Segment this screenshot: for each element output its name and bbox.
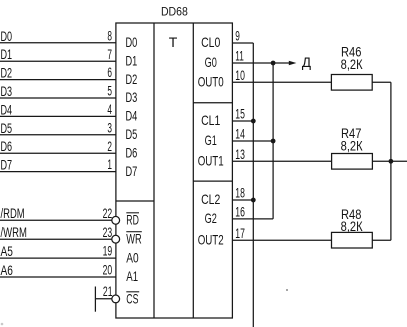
net label A5 bbox=[1, 243, 14, 259]
svg-text:D6: D6 bbox=[126, 144, 138, 160]
junction dot G0 node bbox=[271, 61, 276, 66]
svg-text:D2: D2 bbox=[126, 71, 138, 87]
value label R48 8,2K bbox=[341, 218, 364, 234]
pin label CL0 bbox=[201, 34, 220, 50]
svg-text:10: 10 bbox=[235, 67, 245, 83]
svg-text:13: 13 bbox=[235, 146, 245, 162]
svg-text:21: 21 bbox=[103, 283, 113, 299]
wire D3 pin 5 bbox=[0, 97, 116, 99]
svg-text:A5: A5 bbox=[1, 243, 14, 259]
svg-text:8,2К: 8,2К bbox=[341, 218, 364, 234]
svg-text:D6: D6 bbox=[1, 138, 13, 154]
svg-text:CL0: CL0 bbox=[201, 34, 220, 50]
arrowhead node D bbox=[289, 61, 297, 65]
wire CL2 pin 18 bbox=[232, 199, 253, 201]
pin label G0 bbox=[205, 54, 217, 70]
svg-text:/WRM: /WRM bbox=[1, 224, 27, 240]
svg-text:18: 18 bbox=[235, 185, 245, 201]
pin number 3 bbox=[107, 119, 112, 135]
pin label OUT0 bbox=[198, 74, 224, 90]
wire D7 pin 1 bbox=[0, 171, 116, 173]
inversion bubble pin 21 CS bbox=[112, 295, 120, 303]
resistor R46 body bbox=[331, 75, 372, 91]
svg-text:D1: D1 bbox=[126, 52, 138, 68]
pin number 17 bbox=[235, 225, 245, 241]
pin label A1 bbox=[126, 268, 138, 284]
svg-text:A1: A1 bbox=[126, 268, 138, 284]
svg-text:20: 20 bbox=[103, 262, 113, 278]
svg-text:OUT1: OUT1 bbox=[198, 153, 224, 169]
svg-text:16: 16 bbox=[235, 204, 245, 220]
wire G2 pin 16 bbox=[232, 218, 273, 220]
resistor R47 body bbox=[332, 154, 373, 170]
op IC DD68 outline bbox=[116, 23, 232, 318]
wire R47 right to edge bbox=[372, 160, 407, 162]
wire D5 pin 3 bbox=[0, 134, 116, 136]
wire G1 pin 14 bbox=[232, 140, 273, 142]
svg-text:8: 8 bbox=[107, 27, 112, 43]
junction dot CL1 node bbox=[251, 119, 256, 124]
net label A6 bbox=[1, 262, 14, 278]
svg-text:A0: A0 bbox=[126, 249, 139, 265]
svg-text:2: 2 bbox=[107, 138, 112, 154]
pin number 14 bbox=[235, 126, 245, 142]
wire CL1 pin 15 bbox=[232, 120, 253, 122]
svg-text:OUT0: OUT0 bbox=[198, 74, 224, 90]
pin number 2 bbox=[107, 138, 112, 154]
net label D0 bbox=[1, 28, 13, 44]
pin label D3 bbox=[126, 89, 138, 105]
label R47 bbox=[341, 125, 362, 141]
wire OUT2 pin 17 to R48 bbox=[232, 239, 331, 241]
bus right vertical bbox=[390, 82, 392, 240]
pin number 20 bbox=[103, 262, 113, 278]
net label D1 bbox=[1, 46, 13, 62]
wire /WRM pin 23 bbox=[0, 238, 112, 240]
label R46 bbox=[341, 43, 362, 59]
wire A6 pin 20 bbox=[0, 276, 116, 278]
svg-text:1: 1 bbox=[107, 156, 112, 172]
pin number 23 bbox=[103, 224, 113, 240]
node label D bbox=[302, 55, 311, 70]
wire D4 pin 4 bbox=[0, 115, 116, 117]
svg-text:17: 17 bbox=[235, 225, 245, 241]
pin number 21 bbox=[103, 283, 113, 299]
pin number 22 bbox=[103, 205, 113, 221]
pin number 10 bbox=[235, 67, 245, 83]
pin number 5 bbox=[107, 83, 112, 99]
pin label G2 bbox=[205, 210, 217, 226]
svg-text:Д: Д bbox=[302, 55, 311, 70]
svg-text:D4: D4 bbox=[126, 108, 138, 124]
net label D6 bbox=[1, 138, 13, 154]
svg-text:D0: D0 bbox=[126, 34, 138, 50]
pin label CL2 bbox=[201, 191, 220, 207]
svg-text:CL1: CL1 bbox=[201, 112, 220, 128]
wire A5 pin 19 bbox=[0, 257, 116, 259]
pin number 11 bbox=[235, 48, 244, 64]
svg-text:DD68: DD68 bbox=[161, 7, 188, 19]
wire /RDM pin 22 bbox=[0, 219, 112, 221]
svg-text:T: T bbox=[169, 34, 178, 50]
stray mark bbox=[1, 289, 288, 325]
pin number 8 bbox=[107, 27, 112, 43]
wire R48 right to bus bbox=[372, 239, 391, 241]
svg-text:D3: D3 bbox=[1, 83, 13, 99]
IC internal divider left bbox=[153, 23, 155, 318]
pin label D6 bbox=[126, 144, 138, 160]
IC left column separator below D7 bbox=[116, 200, 154, 202]
svg-text:D7: D7 bbox=[126, 163, 138, 179]
svg-text:15: 15 bbox=[235, 106, 245, 122]
bus G net vertical bbox=[272, 63, 274, 219]
svg-text:D3: D3 bbox=[126, 89, 138, 105]
svg-text:D1: D1 bbox=[1, 46, 13, 62]
svg-text:D7: D7 bbox=[1, 157, 13, 173]
svg-text:A6: A6 bbox=[1, 262, 14, 278]
svg-text:D2: D2 bbox=[1, 65, 13, 81]
svg-text:11: 11 bbox=[235, 48, 244, 64]
wire OUT1 pin 13 to R47 bbox=[232, 160, 331, 162]
inversion bubble pin 22 RD bbox=[112, 216, 120, 224]
net label D3 bbox=[1, 83, 13, 99]
pin number 1 bbox=[107, 156, 112, 172]
svg-text:D5: D5 bbox=[126, 126, 138, 142]
net label D7 bbox=[1, 157, 13, 173]
value label R46 8,2K bbox=[341, 56, 364, 72]
IC right column separator 2 bbox=[193, 180, 232, 182]
svg-text:5: 5 bbox=[107, 83, 112, 99]
net label /WRM bbox=[1, 224, 27, 240]
junction dot CL2 node bbox=[251, 198, 256, 203]
label R48 bbox=[341, 206, 362, 222]
wire D1 pin 7 bbox=[0, 60, 116, 62]
pin label D7 bbox=[126, 163, 138, 179]
svg-text:G1: G1 bbox=[205, 132, 217, 148]
pin label D1 bbox=[126, 52, 138, 68]
pin label WR with overbar bbox=[126, 230, 142, 246]
wire CS stub pin 21 bbox=[95, 298, 111, 300]
pin label D4 bbox=[126, 108, 138, 124]
junction dot R47 bus node bbox=[389, 159, 394, 164]
inversion bubble pin 23 WR bbox=[112, 235, 120, 243]
bus CL net vertical bbox=[252, 43, 254, 327]
svg-text:D0: D0 bbox=[1, 28, 13, 44]
svg-text:WR: WR bbox=[126, 230, 141, 246]
pin number 18 bbox=[235, 185, 245, 201]
pin number 16 bbox=[235, 204, 245, 220]
svg-text:23: 23 bbox=[103, 224, 113, 240]
pin label D0 bbox=[126, 34, 138, 50]
function label T bbox=[169, 34, 178, 50]
IC right column separator 1 bbox=[193, 102, 232, 104]
pin label OUT1 bbox=[198, 153, 224, 169]
svg-text:G2: G2 bbox=[205, 210, 217, 226]
svg-text:4: 4 bbox=[107, 101, 112, 117]
wire D6 pin 2 bbox=[0, 152, 116, 154]
svg-text:RD: RD bbox=[126, 212, 139, 228]
wire D0 pin 8 bbox=[0, 42, 116, 44]
svg-text:CL2: CL2 bbox=[201, 191, 220, 207]
pin number 13 bbox=[235, 146, 245, 162]
pin label G1 bbox=[205, 132, 217, 148]
pin label CL1 bbox=[201, 112, 220, 128]
svg-text:D5: D5 bbox=[1, 120, 13, 136]
label DD68 bbox=[161, 7, 188, 19]
net label /RDM bbox=[1, 205, 25, 221]
svg-text:22: 22 bbox=[103, 205, 113, 221]
pin number 4 bbox=[107, 101, 112, 117]
pin number 7 bbox=[107, 46, 112, 62]
wire R46 right to bus bbox=[372, 81, 391, 83]
pin label A0 bbox=[126, 249, 139, 265]
pin number 6 bbox=[107, 64, 112, 80]
pin number 9 bbox=[235, 28, 240, 44]
pin label CS with overbar bbox=[126, 290, 139, 306]
junction dot G1 node bbox=[271, 139, 276, 144]
svg-text:OUT2: OUT2 bbox=[198, 231, 224, 247]
net label D4 bbox=[1, 101, 13, 117]
resistor R48 body bbox=[332, 232, 373, 248]
pin label RD with overbar bbox=[126, 212, 139, 228]
svg-text:G0: G0 bbox=[205, 54, 217, 70]
value label R47 8,2K bbox=[341, 137, 364, 153]
svg-text:8,2К: 8,2К bbox=[341, 137, 364, 153]
net label D5 bbox=[1, 120, 13, 136]
pin label OUT2 bbox=[198, 231, 224, 247]
pin label D5 bbox=[126, 126, 138, 142]
IC internal divider right bbox=[192, 23, 194, 318]
wire OUT0 pin 10 to R46 bbox=[232, 81, 331, 83]
svg-text:8,2К: 8,2К bbox=[341, 56, 364, 72]
svg-text:19: 19 bbox=[103, 243, 113, 259]
svg-text:D4: D4 bbox=[1, 101, 13, 117]
net label D2 bbox=[1, 65, 13, 81]
svg-text:7: 7 bbox=[107, 46, 112, 62]
wire CL0 pin 9 bbox=[232, 42, 253, 44]
svg-text:14: 14 bbox=[235, 126, 245, 142]
pin number 15 bbox=[235, 106, 245, 122]
svg-text:6: 6 bbox=[107, 64, 112, 80]
wire G0 pin 11 to arrow bbox=[232, 62, 289, 64]
svg-text:9: 9 bbox=[235, 28, 240, 44]
svg-text:/RDM: /RDM bbox=[1, 205, 25, 221]
pin label D2 bbox=[126, 71, 138, 87]
svg-text:CS: CS bbox=[126, 290, 138, 306]
pin number 19 bbox=[103, 243, 113, 259]
terminator tick pin 21 bbox=[94, 287, 96, 312]
wire D2 pin 6 bbox=[0, 79, 116, 81]
svg-text:3: 3 bbox=[107, 119, 112, 135]
